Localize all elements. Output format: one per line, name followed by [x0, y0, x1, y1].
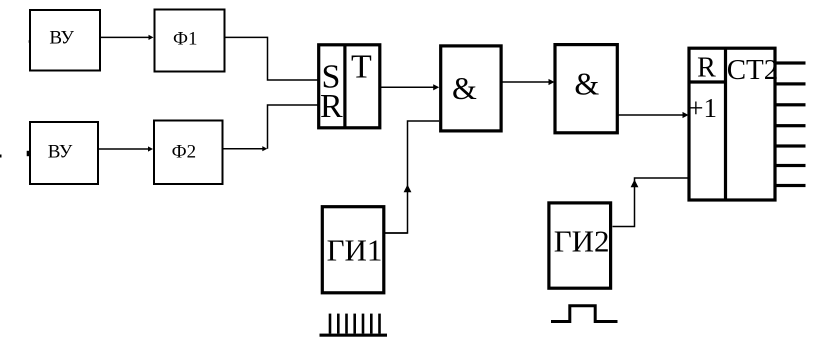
stray tick left of VU2 — [27, 151, 29, 156]
svg-text:ВУ: ВУ — [48, 142, 73, 163]
block F1 — [155, 10, 225, 72]
pulse train symbol under GI1 — [320, 314, 388, 337]
svg-text:R: R — [697, 53, 716, 84]
wire arrow VU2 to F2 — [98, 146, 153, 151]
wire trigger out to AND1 (arrow) — [380, 84, 439, 90]
generator GI1 box — [322, 207, 384, 293]
svg-text:&: & — [574, 65, 599, 101]
svg-text:T: T — [351, 48, 372, 85]
counter CT2 box — [688, 48, 778, 200]
wire corner up to R input — [268, 105, 319, 149]
svg-text:+1: +1 — [688, 93, 717, 123]
svg-text:Ф1: Ф1 — [173, 28, 198, 49]
svg-text:ВУ: ВУ — [49, 27, 74, 48]
wire F2 to corner (arrow) — [223, 146, 268, 151]
block VU2 — [30, 122, 98, 184]
block F2 — [154, 121, 223, 185]
svg-text:ГИ2: ГИ2 — [554, 224, 610, 259]
svg-text:CT2: CT2 — [727, 54, 779, 86]
wire F1 to S input — [225, 37, 319, 80]
AND gate 1 — [441, 46, 501, 131]
trigger T (S R) box — [319, 45, 380, 128]
single pulse symbol under GI2 — [551, 306, 618, 322]
wire arrow VU1 to F1 — [100, 35, 154, 40]
stray tick left of VU1 — [29, 40, 31, 43]
wire AND2 to counter +1 (arrow) — [619, 112, 689, 118]
svg-text:R: R — [320, 88, 343, 125]
AND gate 2 — [555, 45, 617, 133]
counter output stubs — [776, 61, 806, 187]
wire GI2 out up to counter (up arrow) — [613, 178, 689, 227]
wire AND1 to AND2 (arrow) — [502, 79, 555, 85]
wire GI1 out — [384, 232, 408, 234]
wire GI1 to AND1 (up arrow mid) — [384, 121, 440, 233]
generator GI2 box — [549, 203, 611, 288]
svg-text:ГИ1: ГИ1 — [327, 232, 383, 267]
block VU1 — [30, 10, 100, 71]
svg-text:&: & — [452, 70, 477, 106]
stray dot at image left edge — [0, 155, 2, 158]
svg-text:Ф2: Ф2 — [172, 141, 197, 162]
